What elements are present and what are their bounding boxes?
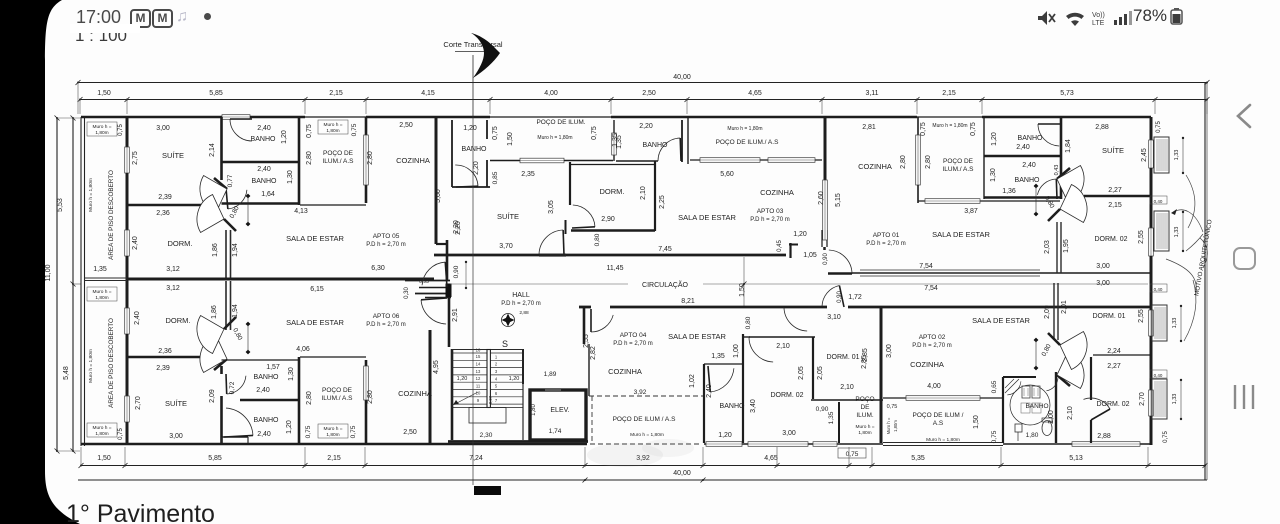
corte transversal arrow bbox=[471, 33, 500, 78]
svg-text:DE: DE bbox=[860, 404, 870, 411]
svg-text:1,95: 1,95 bbox=[1063, 239, 1070, 253]
apto06 right wall bbox=[429, 330, 432, 443]
svg-text:1,02: 1,02 bbox=[689, 374, 696, 388]
svg-text:0,45: 0,45 bbox=[777, 240, 783, 252]
svg-text:1,50: 1,50 bbox=[739, 283, 746, 297]
apto03 dorm bottom wall bbox=[571, 229, 655, 232]
apto02 banho wc bbox=[1042, 421, 1052, 436]
apto01 cozinha right wall with window bbox=[917, 117, 919, 135]
bottom muro poco apto04 (dashed) bbox=[590, 443, 701, 445]
android nav back chevron bbox=[1228, 98, 1258, 134]
apto04 dorm02 top wall bbox=[744, 336, 750, 338]
apto03 banho door bbox=[455, 165, 478, 186]
svg-text:COZINHA: COZINHA bbox=[608, 367, 642, 376]
facade motif element 2 bbox=[1154, 211, 1169, 251]
svg-text:0,75: 0,75 bbox=[1156, 121, 1162, 133]
apto05 banho right wall bbox=[298, 117, 301, 205]
svg-text:0,80: 0,80 bbox=[594, 233, 601, 246]
apto02 entry double door bowtie bbox=[1057, 375, 1070, 386]
svg-text:0,43: 0,43 bbox=[1054, 165, 1060, 176]
svg-text:1,20: 1,20 bbox=[509, 376, 520, 382]
svg-text:2,80: 2,80 bbox=[367, 151, 374, 165]
svg-text:0,40: 0,40 bbox=[1154, 287, 1163, 292]
svg-text:Muro h = 1,80m: Muro h = 1,80m bbox=[727, 126, 762, 132]
svg-text:0,90: 0,90 bbox=[453, 265, 460, 278]
svg-text:2,40: 2,40 bbox=[706, 384, 713, 398]
svg-text:MOTIVO ARQUITETÔNICO: MOTIVO ARQUITETÔNICO bbox=[1193, 219, 1213, 297]
svg-text:0,75: 0,75 bbox=[306, 124, 313, 138]
apto05 banho2 door bbox=[228, 190, 247, 209]
svg-text:ILUM./ A.S: ILUM./ A.S bbox=[321, 395, 353, 402]
svg-text:0,80: 0,80 bbox=[231, 327, 243, 342]
svg-text:0,85: 0,85 bbox=[492, 171, 499, 184]
svg-text:2,60: 2,60 bbox=[818, 191, 825, 205]
svg-text:2,09: 2,09 bbox=[209, 389, 216, 403]
apto06 cozinha window on poco bbox=[364, 366, 369, 400]
svg-text:0,65: 0,65 bbox=[991, 380, 998, 393]
top overall dimension line 40,00 bbox=[78, 82, 1207, 84]
svg-text:2,82: 2,82 bbox=[590, 346, 597, 360]
svg-text:1,20: 1,20 bbox=[457, 376, 468, 382]
apto04 entry door arc bbox=[591, 315, 613, 332]
apto02 banho small fixture bbox=[1015, 424, 1022, 432]
facade element2 dim bbox=[1182, 212, 1184, 251]
wifi bbox=[1066, 13, 1084, 19]
svg-text:1,80m: 1,80m bbox=[893, 420, 898, 432]
hall-apto06 jog walls bbox=[415, 293, 449, 295]
svg-text:0,75: 0,75 bbox=[970, 122, 977, 136]
svg-text:1,35: 1,35 bbox=[711, 353, 725, 360]
building left outer wall with windows bbox=[126, 117, 129, 147]
svg-text:APTO 06: APTO 06 bbox=[373, 313, 400, 320]
svg-text:1: 1 bbox=[495, 354, 498, 359]
svg-text:POÇO: POÇO bbox=[855, 396, 874, 403]
svg-text:1,05: 1,05 bbox=[803, 252, 817, 259]
bottom extension lines bbox=[80, 447, 82, 466]
svg-text:4,15: 4,15 bbox=[421, 90, 435, 97]
svg-text:2,10: 2,10 bbox=[776, 343, 790, 350]
svg-text:1,33: 1,33 bbox=[1174, 227, 1180, 238]
svg-text:P.D h = 2,70 m: P.D h = 2,70 m bbox=[912, 343, 951, 349]
apto02 entry door arc bbox=[822, 285, 839, 306]
svg-text:2,88: 2,88 bbox=[519, 310, 529, 316]
apto02 dorm02 left wall bbox=[1090, 357, 1092, 400]
apto02 banho door arc bbox=[1046, 378, 1058, 391]
apto02 banho corner shower bbox=[1005, 379, 1019, 393]
status bar right icons bbox=[1030, 6, 1200, 30]
svg-text:0,40: 0,40 bbox=[1154, 199, 1163, 204]
svg-text:POÇO DE: POÇO DE bbox=[943, 158, 974, 165]
apto05 entry double door bowtie bbox=[214, 178, 227, 189]
svg-text:0,75: 0,75 bbox=[492, 126, 499, 140]
svg-text:Muro h = 1,80m: Muro h = 1,80m bbox=[932, 123, 967, 129]
apto06 entry door bbox=[421, 300, 446, 324]
svg-text:2,05: 2,05 bbox=[798, 366, 805, 380]
svg-text:APTO 03: APTO 03 bbox=[757, 208, 784, 215]
svg-text:2,36: 2,36 bbox=[158, 348, 172, 355]
apto05/06 party wall bbox=[127, 278, 434, 281]
svg-text:SALA DE ESTAR: SALA DE ESTAR bbox=[972, 316, 1030, 325]
floor title 1 Pavimento bbox=[66, 500, 215, 524]
svg-text:2,40: 2,40 bbox=[1016, 144, 1030, 151]
svg-text:5,15: 5,15 bbox=[835, 193, 842, 207]
svg-text:POÇO DE ILUM / A.S: POÇO DE ILUM / A.S bbox=[613, 416, 677, 423]
top segmented dimension line bbox=[80, 99, 1207, 101]
apto06 banho1 door bbox=[226, 408, 253, 435]
svg-text:1,20: 1,20 bbox=[793, 231, 807, 238]
svg-text:1,50: 1,50 bbox=[973, 415, 980, 429]
svg-text:3,00: 3,00 bbox=[169, 433, 183, 440]
svg-text:0,75: 0,75 bbox=[591, 126, 598, 140]
svg-text:2,03: 2,03 bbox=[1044, 240, 1051, 254]
svg-text:2,36: 2,36 bbox=[156, 210, 170, 217]
svg-text:1,57: 1,57 bbox=[266, 364, 280, 371]
svg-text:0,75: 0,75 bbox=[920, 122, 927, 136]
svg-text:2,15: 2,15 bbox=[329, 90, 343, 97]
svg-text:1,30: 1,30 bbox=[990, 168, 997, 182]
svg-text:3,10: 3,10 bbox=[827, 314, 841, 321]
svg-text:2,80: 2,80 bbox=[306, 391, 313, 405]
svg-text:P.D h = 2,70 m: P.D h = 2,70 m bbox=[866, 241, 905, 247]
svg-text:2,50: 2,50 bbox=[642, 90, 656, 97]
svg-text:1,33: 1,33 bbox=[1172, 394, 1178, 405]
svg-text:SUÍTE: SUÍTE bbox=[1102, 146, 1124, 155]
svg-text:Muro h = 1,80m: Muro h = 1,80m bbox=[926, 437, 960, 443]
bottom segmented dimension line bbox=[81, 465, 1205, 467]
svg-text:2,85: 2,85 bbox=[862, 348, 869, 362]
stair treads bbox=[452, 352, 523, 354]
svg-text:6,15: 6,15 bbox=[310, 286, 324, 293]
svg-text:0,80: 0,80 bbox=[1041, 343, 1053, 358]
svg-text:7,54: 7,54 bbox=[919, 263, 933, 270]
svg-text:2,40: 2,40 bbox=[256, 387, 270, 394]
svg-text:40,00: 40,00 bbox=[673, 470, 691, 477]
svg-text:1,20: 1,20 bbox=[718, 432, 732, 439]
apto03 banho2 walls bbox=[613, 120, 615, 133]
battery icon bbox=[1169, 8, 1189, 26]
apto02 dorm01 left wall (cavity) bbox=[1053, 283, 1055, 340]
svg-text:2,14: 2,14 bbox=[209, 143, 216, 157]
apto02 banho walls bbox=[1003, 376, 1036, 378]
apto02 cozinha bottom wall with window bbox=[883, 397, 1003, 399]
svg-text:2,40: 2,40 bbox=[257, 125, 271, 132]
corridor bottom wall bbox=[579, 306, 591, 309]
apto03 cozinha window strip bbox=[823, 180, 828, 240]
svg-text:2,75: 2,75 bbox=[132, 151, 139, 165]
svg-text:15: 15 bbox=[476, 354, 481, 359]
svg-text:2,39: 2,39 bbox=[158, 194, 172, 201]
apto04 nook window bbox=[813, 442, 837, 447]
apto06 banho1 niche jog bbox=[222, 436, 248, 438]
apto04 dorm01 door from corridor bbox=[784, 307, 807, 331]
svg-text:POÇO DE: POÇO DE bbox=[323, 150, 354, 157]
svg-text:2,15: 2,15 bbox=[327, 455, 341, 462]
svg-text:1,20: 1,20 bbox=[286, 420, 293, 434]
svg-text:4,13: 4,13 bbox=[294, 208, 308, 215]
svg-text:1,33: 1,33 bbox=[1172, 318, 1178, 329]
svg-text:SUÍTE: SUÍTE bbox=[165, 399, 187, 408]
apto06 banho walls bbox=[222, 359, 300, 361]
svg-text:2,81: 2,81 bbox=[862, 124, 876, 131]
svg-text:2,24: 2,24 bbox=[1107, 348, 1121, 355]
apto02 dorm01 bottom wall bbox=[1093, 354, 1151, 356]
svg-text:0,27: 0,27 bbox=[488, 395, 493, 404]
svg-text:3,11: 3,11 bbox=[865, 90, 878, 97]
svg-text:5,73: 5,73 bbox=[1060, 90, 1074, 97]
svg-text:11,45: 11,45 bbox=[607, 265, 624, 272]
apto06 poco bottom wall bbox=[300, 356, 366, 358]
apto03 suite door bbox=[539, 230, 563, 254]
svg-text:1,84: 1,84 bbox=[1065, 139, 1072, 153]
svg-text:1,35: 1,35 bbox=[616, 135, 623, 149]
apto04/apto02 party wall bbox=[880, 307, 883, 443]
svg-text:4,65: 4,65 bbox=[748, 90, 762, 97]
corridor width dim 1,50 bbox=[743, 257, 745, 306]
svg-text:1,30: 1,30 bbox=[287, 170, 294, 184]
svg-text:ILUM./ A.S: ILUM./ A.S bbox=[322, 158, 354, 165]
bottom muro poco apto02 thin bbox=[883, 442, 1003, 444]
svg-text:2,40: 2,40 bbox=[132, 236, 139, 250]
svg-text:ILUM./ A.S: ILUM./ A.S bbox=[942, 166, 974, 173]
svg-text:0,80: 0,80 bbox=[745, 316, 752, 329]
svg-text:0,93: 0,93 bbox=[419, 279, 429, 285]
apto01 banho right wall bbox=[1060, 117, 1063, 199]
svg-text:0,90: 0,90 bbox=[823, 253, 829, 265]
svg-text:6: 6 bbox=[495, 391, 498, 396]
corridor centre dimension line bbox=[450, 283, 628, 285]
apto02 banho sink fixtures bbox=[1022, 386, 1030, 398]
svg-text:3,05: 3,05 bbox=[548, 200, 555, 214]
svg-text:1,94: 1,94 bbox=[232, 304, 239, 318]
top extension lines bbox=[79, 100, 81, 115]
mute icon bbox=[1038, 11, 1047, 25]
status dot bbox=[204, 13, 211, 20]
apto01 bottom wall with window band bbox=[828, 272, 1151, 274]
apto03 dorm top wall bbox=[570, 164, 655, 166]
apto05 suite/dorm wall bbox=[127, 204, 204, 207]
svg-text:Vo)): Vo)) bbox=[1092, 12, 1105, 19]
svg-text:APTO 02: APTO 02 bbox=[919, 334, 946, 341]
svg-text:3,12: 3,12 bbox=[166, 266, 180, 273]
svg-text:POÇO DE ILUM.: POÇO DE ILUM. bbox=[536, 119, 585, 126]
stair lower landing bbox=[469, 408, 506, 424]
status bar M icons bbox=[130, 9, 151, 28]
svg-text:S: S bbox=[502, 339, 508, 349]
svg-text:2,39: 2,39 bbox=[156, 365, 170, 372]
svg-text:4,95: 4,95 bbox=[433, 360, 440, 374]
svg-text:SALA DE ESTAR: SALA DE ESTAR bbox=[668, 332, 726, 341]
svg-text:2,09: 2,09 bbox=[1044, 305, 1051, 319]
svg-text:2,45: 2,45 bbox=[1141, 148, 1148, 162]
apto05 poco bottom wall bbox=[300, 204, 366, 206]
svg-text:Muro h = 1,80m: Muro h = 1,80m bbox=[630, 432, 664, 438]
svg-text:0,75: 0,75 bbox=[350, 425, 357, 438]
svg-text:SALA DE ESTAR: SALA DE ESTAR bbox=[286, 318, 344, 327]
svg-text:DORM. 02: DORM. 02 bbox=[770, 392, 803, 399]
svg-text:4,65: 4,65 bbox=[764, 455, 778, 462]
svg-text:2: 2 bbox=[495, 362, 498, 367]
apto04 dorm01 bottom wall bbox=[811, 399, 883, 401]
apto04 dorm02 door bbox=[749, 337, 773, 362]
svg-text:4: 4 bbox=[495, 376, 498, 381]
svg-text:1,86: 1,86 bbox=[212, 243, 219, 257]
svg-text:APTO 01: APTO 01 bbox=[873, 232, 900, 239]
svg-text:1,94: 1,94 bbox=[232, 243, 239, 257]
black video corner top-left bbox=[0, 0, 120, 524]
apto06 entry double door bowtie bbox=[214, 359, 227, 370]
svg-text:2,50: 2,50 bbox=[403, 429, 417, 436]
svg-text:P.D h = 2,70 m: P.D h = 2,70 m bbox=[501, 301, 540, 307]
apto05 entry door arc bbox=[422, 262, 445, 285]
apto05 cozinha left wall bbox=[365, 117, 368, 203]
svg-text:1,00: 1,00 bbox=[733, 344, 740, 358]
svg-text:0,90: 0,90 bbox=[837, 291, 843, 303]
hall-apto05 jog walls bbox=[405, 280, 450, 282]
apto01 entry door arc bbox=[829, 250, 852, 274]
svg-text:0,75: 0,75 bbox=[351, 123, 358, 136]
svg-text:2,20: 2,20 bbox=[473, 161, 480, 175]
svg-text:4,06: 4,06 bbox=[296, 346, 310, 353]
svg-text:BANHO: BANHO bbox=[1018, 135, 1043, 142]
svg-text:0,75: 0,75 bbox=[887, 404, 898, 410]
svg-text:1,89: 1,89 bbox=[544, 371, 557, 378]
svg-text:DORM.: DORM. bbox=[168, 239, 193, 248]
svg-text:COZINHA: COZINHA bbox=[398, 389, 432, 398]
svg-text:1,20: 1,20 bbox=[463, 125, 477, 132]
status bar clock bbox=[76, 7, 121, 28]
left property muro double line bbox=[80, 117, 82, 446]
bottom overall dimension line 40,00 bbox=[78, 479, 1207, 481]
svg-text:Muro h = 1,80m: Muro h = 1,80m bbox=[537, 135, 572, 141]
svg-text:0,77: 0,77 bbox=[227, 174, 234, 187]
svg-text:2,70: 2,70 bbox=[1139, 392, 1146, 406]
svg-text:2,15: 2,15 bbox=[1108, 202, 1122, 209]
facade element1 dim bbox=[1182, 138, 1184, 173]
apto03 poco A.S bottom wall with windows bbox=[690, 159, 822, 161]
svg-text:2,20: 2,20 bbox=[455, 221, 462, 235]
svg-text:0,75: 0,75 bbox=[1163, 431, 1169, 443]
apto01 cozinha/sala wall bbox=[918, 200, 1060, 202]
apto01 banho1 door bbox=[1038, 124, 1059, 146]
svg-text:5: 5 bbox=[495, 384, 498, 389]
svg-text:BANHO: BANHO bbox=[254, 417, 279, 424]
svg-text:7,45: 7,45 bbox=[658, 246, 672, 253]
svg-text:APTO 04: APTO 04 bbox=[620, 332, 647, 339]
svg-text:2,15: 2,15 bbox=[942, 90, 956, 97]
stair walk line arrow bbox=[455, 392, 478, 404]
svg-text:2,70: 2,70 bbox=[135, 396, 142, 410]
svg-text:Muro h =: Muro h = bbox=[323, 122, 342, 128]
android nav recents bars bbox=[1232, 383, 1258, 411]
apto01 dorm02 left wall (cavity) bbox=[1056, 222, 1058, 273]
apto03 entry jog wall bbox=[789, 243, 791, 258]
svg-text:3,00: 3,00 bbox=[1096, 280, 1110, 287]
building bottom outer wall bbox=[81, 443, 587, 446]
apto01 poco right wall bbox=[983, 117, 985, 158]
svg-text:P.D h = 2,70 m: P.D h = 2,70 m bbox=[613, 341, 652, 347]
svg-text:APTO 05: APTO 05 bbox=[373, 233, 400, 240]
svg-text:2,80: 2,80 bbox=[306, 151, 313, 165]
svg-text:2,88: 2,88 bbox=[1095, 124, 1109, 131]
apto03 bottom wall bbox=[434, 254, 786, 257]
apto03 cozinha left wall stub bbox=[687, 117, 689, 164]
apto06 dorm/suite wall bbox=[127, 356, 204, 359]
svg-text:LTE: LTE bbox=[1092, 20, 1105, 27]
apto05 suite right wall bbox=[220, 117, 223, 180]
svg-text:DORM.: DORM. bbox=[600, 187, 625, 196]
svg-text:BANHO: BANHO bbox=[254, 374, 279, 381]
stair centre rail bbox=[487, 350, 490, 408]
svg-text:COZINHA: COZINHA bbox=[858, 162, 892, 171]
svg-text:2,05: 2,05 bbox=[817, 366, 824, 380]
svg-text:2,91: 2,91 bbox=[452, 308, 459, 322]
svg-text:BANHO: BANHO bbox=[462, 146, 487, 153]
svg-text:POÇO DE ILUM /: POÇO DE ILUM / bbox=[913, 412, 964, 419]
motivo arquitetonico leader curves bbox=[1172, 210, 1203, 232]
svg-text:2,27: 2,27 bbox=[1108, 187, 1122, 194]
apto01 banho2 door bbox=[1037, 179, 1056, 195]
left segmented dimension line 5,53 / 5,48 bbox=[72, 118, 74, 451]
facade element3 dim bbox=[1180, 306, 1182, 341]
facade element4 dim bbox=[1180, 380, 1182, 419]
hall compass north arrow bbox=[502, 314, 515, 327]
svg-text:DORM. 02: DORM. 02 bbox=[1096, 401, 1129, 408]
apto03 dorm right wall bbox=[654, 161, 656, 231]
svg-text:1,80: 1,80 bbox=[531, 404, 537, 416]
svg-text:0,30: 0,30 bbox=[404, 287, 410, 299]
svg-text:A.S: A.S bbox=[933, 420, 944, 427]
svg-text:2,25: 2,25 bbox=[659, 195, 666, 209]
bottom windows banho/dorm apto04 bbox=[706, 442, 742, 447]
apto04 banho walls bbox=[704, 363, 744, 365]
bottom window dorm02 apto02 bbox=[1072, 442, 1140, 447]
svg-text:CIRCULAÇÃO: CIRCULAÇÃO bbox=[642, 280, 688, 289]
apto03/apto01 party wall bbox=[824, 117, 827, 230]
svg-text:Muro h =: Muro h = bbox=[323, 426, 342, 432]
svg-text:12: 12 bbox=[476, 376, 481, 381]
svg-text:8,21: 8,21 bbox=[681, 298, 695, 305]
svg-text:COZINHA: COZINHA bbox=[760, 188, 794, 197]
svg-text:1,86: 1,86 bbox=[211, 305, 218, 319]
svg-text:BANHO: BANHO bbox=[1025, 403, 1048, 410]
apto03 banho walls bbox=[451, 120, 453, 187]
svg-text:2,10: 2,10 bbox=[640, 186, 647, 200]
svg-text:SALA DE ESTAR: SALA DE ESTAR bbox=[678, 213, 736, 222]
apto05 cozinha window on poco bbox=[364, 135, 369, 185]
section cut bottom marker bbox=[474, 486, 501, 495]
svg-text:2,10: 2,10 bbox=[1067, 406, 1074, 420]
svg-text:1,80m: 1,80m bbox=[326, 432, 339, 438]
watermark smudge bbox=[587, 443, 663, 467]
apto06 dorm right wall (cavity) bbox=[225, 281, 227, 330]
apto01 banho dividing walls bbox=[984, 155, 1061, 158]
building right outer wall with windows bbox=[1150, 117, 1153, 140]
svg-text:2,20: 2,20 bbox=[639, 123, 653, 130]
svg-text:2,40: 2,40 bbox=[1022, 162, 1036, 169]
svg-text:5,13: 5,13 bbox=[1069, 455, 1083, 462]
svg-text:ILUM.: ILUM. bbox=[856, 412, 874, 419]
svg-text:1,74: 1,74 bbox=[549, 428, 562, 435]
apto01 entry double door bowtie bbox=[1057, 168, 1070, 179]
apto04 dorm01 left wall bbox=[812, 337, 814, 399]
svg-text:0,40: 0,40 bbox=[1154, 373, 1163, 378]
svg-text:11: 11 bbox=[476, 383, 481, 388]
svg-text:1,30: 1,30 bbox=[288, 367, 295, 381]
svg-text:14: 14 bbox=[476, 362, 481, 367]
svg-text:2,40: 2,40 bbox=[257, 166, 271, 173]
hall lower left wall bbox=[448, 296, 451, 347]
svg-text:3,00: 3,00 bbox=[782, 430, 796, 437]
